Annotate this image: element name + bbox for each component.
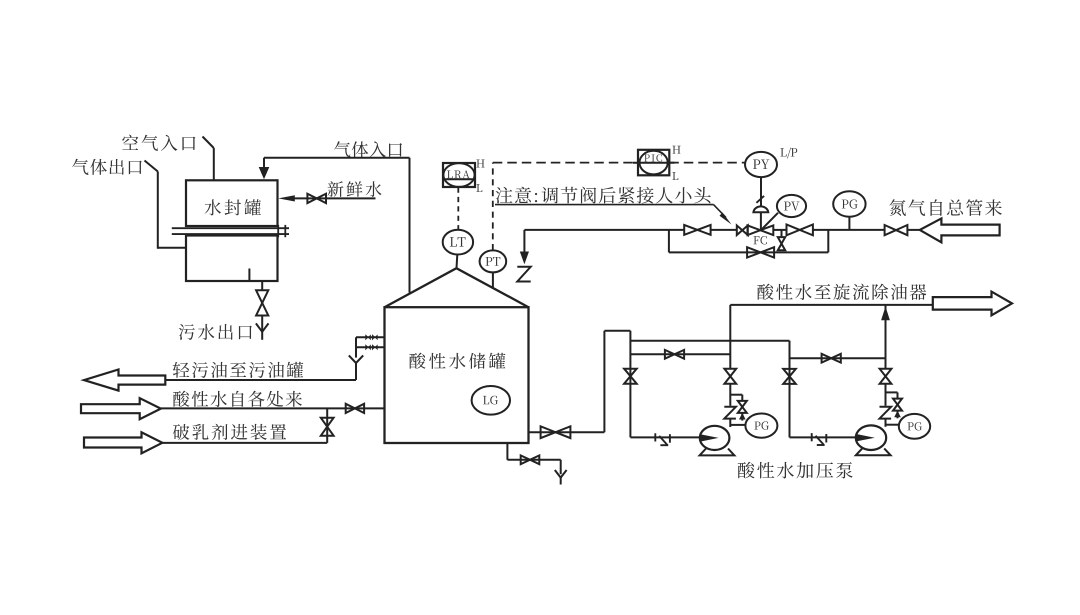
label H (LRA)	[476, 159, 484, 167]
label LRA	[447, 170, 470, 178]
relief branch pump1	[730, 394, 742, 396]
valve: demulsifier	[321, 418, 334, 427]
drain funnel: tank drain	[555, 470, 561, 478]
gauge cock valves upper	[365, 334, 368, 340]
valve: pump1 discharge	[724, 369, 736, 377]
wire: pump2 discharge riser	[885, 305, 887, 369]
wire: air inlet leader+pipe	[203, 137, 214, 149]
wire: tank drain	[506, 443, 508, 460]
control valve actuator dome	[753, 206, 768, 212]
vessel: water seal tank lower shell	[186, 236, 278, 282]
valve: pump1 suction	[624, 369, 637, 377]
valve: block right	[787, 225, 800, 236]
valve: pump2 suction	[783, 369, 796, 377]
valve: nitrogen isolation	[885, 225, 896, 235]
arrow: acid water in (outline)	[81, 398, 161, 419]
arrow: fresh water into tank	[278, 195, 295, 201]
signal slash	[756, 196, 764, 203]
wire: fresh water pipe	[293, 197, 376, 199]
wire: PY to actuator	[760, 177, 762, 206]
valve: pump2 recirculation	[822, 354, 832, 363]
pump P2 inlet arrow	[856, 434, 875, 441]
label: 水封罐	[205, 199, 261, 215]
label: fresh water 新鲜水	[328, 181, 382, 197]
signal: dashed horizontal to PIC	[493, 162, 638, 164]
instrument PG pump1	[730, 424, 745, 426]
valve: tank drain	[521, 455, 530, 464]
water seal plates	[172, 227, 289, 229]
wire: discharge header	[730, 304, 933, 306]
signal: dashed PIC to PY	[669, 162, 745, 164]
relief valve pump1	[738, 401, 747, 407]
wire: PV to valve	[762, 213, 779, 230]
label: 酸性水储罐	[409, 353, 505, 369]
arrow: to cyclone deoiler (outline)	[933, 292, 1012, 316]
instrument PIC square	[638, 150, 669, 176]
wire: light oil line	[165, 379, 356, 381]
label: 酸性水自各处来	[173, 391, 302, 407]
label: gas outlet 气体出口	[72, 159, 142, 175]
arrow: down	[520, 252, 529, 265]
valve: tank outlet	[541, 426, 556, 438]
instrument PY	[745, 152, 777, 177]
break symbol Z pump2	[880, 407, 892, 419]
valve: pump2 discharge	[880, 369, 892, 377]
wire: acid water feed line	[161, 407, 385, 409]
pump P2 casing	[856, 425, 886, 450]
wire: gauge stub lower	[356, 346, 385, 348]
wire: pump2 recirculation	[790, 357, 886, 359]
arrow: light oil out (outline)	[84, 370, 165, 391]
vessel: water seal tank upper shell	[186, 180, 278, 226]
valve: bypass	[747, 247, 761, 257]
break symbol Z pump1	[724, 407, 736, 419]
pump P1 casing	[700, 426, 730, 450]
wire: gas inlet pipe	[263, 158, 265, 169]
wire below valve	[261, 316, 263, 332]
valve: block left	[684, 225, 697, 235]
label H (PIC)	[672, 146, 680, 154]
wire: PT to roof	[492, 272, 494, 288]
arrow: demulsifier in (outline)	[84, 432, 162, 453]
wire: pump2 suction line	[790, 436, 857, 438]
wire: sewage outlet pipe	[261, 281, 263, 291]
control valve FC	[748, 225, 761, 235]
wire: pump1 recirculation	[630, 353, 730, 355]
note text 注意:调节阀后紧接人小头	[496, 187, 711, 204]
wire: LT to tank	[456, 255, 459, 269]
instrument PV	[777, 195, 806, 217]
drain funnel: sewage outlet	[256, 323, 262, 331]
vessel: acid water tank shell	[385, 307, 529, 443]
instrument PT	[480, 250, 507, 272]
arrow: pump2 discharge up	[881, 307, 890, 321]
label: 氮气自总管来	[889, 199, 1002, 216]
relief arrow up pump2	[894, 411, 901, 418]
relief branch pump2	[886, 391, 898, 393]
wire: gauge stub upper	[356, 336, 385, 338]
wire: suction riser	[603, 331, 605, 433]
relief arrow up pump1	[739, 413, 746, 420]
instrument LG (level gauge)	[472, 386, 510, 415]
valve: acid water feed	[346, 404, 355, 413]
wire: demulsifier line	[162, 442, 327, 444]
gauge cock valves lower	[365, 344, 368, 350]
strainer: pump2	[811, 433, 813, 441]
valve: fresh water	[307, 194, 316, 203]
instrument PG (nitrogen)	[833, 191, 865, 216]
wire: gas outlet pipe	[145, 161, 158, 172]
pump P2 base	[856, 448, 891, 455]
wire: bypass	[668, 230, 670, 253]
wire: down leg to tank blanket	[523, 230, 525, 253]
break symbol Z	[517, 267, 530, 282]
valve: small drain	[781, 230, 783, 237]
label: 酸性水加压泵	[738, 462, 853, 479]
wire: pump2 suction branch	[630, 340, 789, 342]
label: 酸性水至旋流除油器	[757, 284, 926, 300]
vessel: acid water tank roof	[385, 268, 529, 307]
arrow: nitrogen from header (outline)	[920, 218, 1000, 242]
valve: sewage outlet	[256, 290, 268, 303]
signal: PT up dashed	[492, 163, 494, 251]
wire: gauge drain drop	[355, 337, 357, 357]
wire: pump1 discharge riser	[729, 305, 731, 369]
note leader arrow	[714, 205, 727, 218]
wire: tank outlet	[529, 431, 605, 433]
arrow: gas inlet into tank	[259, 167, 270, 179]
label: air inlet 空气入口	[122, 135, 195, 151]
relief valve pump2	[893, 399, 902, 405]
label PIC	[644, 154, 662, 161]
drain funnel: gauge	[349, 355, 356, 363]
label: 轻污油至污油罐	[173, 362, 303, 378]
valve: pump1 recirculation	[665, 350, 675, 359]
instrument LT	[443, 230, 473, 255]
label: 破乳剂进装置	[173, 424, 286, 440]
label: gas inlet 气体入口	[334, 141, 402, 157]
label L (PIC)	[672, 172, 678, 180]
pump P1 base	[700, 449, 735, 456]
strainer: pump1	[654, 433, 656, 441]
label L/P	[780, 148, 797, 159]
label: sewage outlet 污水出口	[179, 324, 252, 340]
label FC	[753, 236, 766, 244]
reducer pair	[737, 225, 743, 235]
wire: nitrogen main pipe	[524, 229, 684, 231]
label L (LRA)	[476, 184, 482, 192]
instrument PG pump2	[886, 424, 900, 426]
pump P1 inlet arrow	[700, 434, 718, 441]
signal: LRA to LT dashed	[457, 188, 459, 230]
instrument LRA square	[443, 163, 475, 187]
wire: pump1 suction line	[630, 436, 700, 438]
internal stub	[248, 269, 250, 282]
